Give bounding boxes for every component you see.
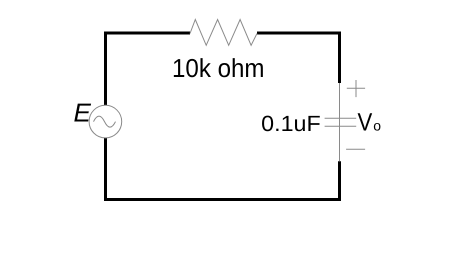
svg-text:V: V — [358, 108, 373, 136]
svg-text:10k ohm: 10k ohm — [172, 53, 265, 83]
svg-text:0.1uF: 0.1uF — [261, 111, 321, 136]
svg-text:o: o — [373, 118, 381, 134]
svg-text:E: E — [74, 98, 92, 128]
